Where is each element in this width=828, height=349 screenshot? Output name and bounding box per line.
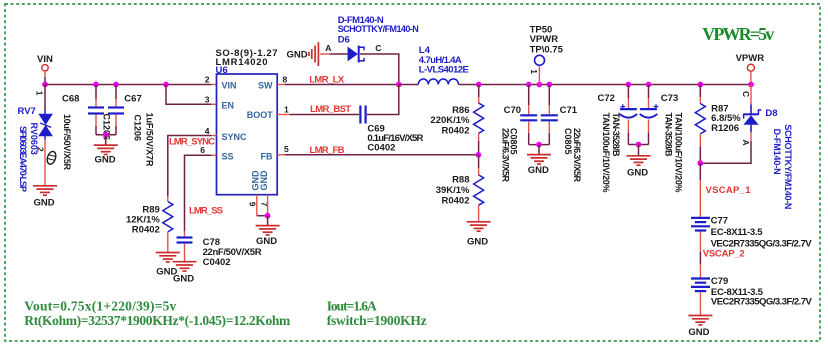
node EN tap bbox=[163, 82, 169, 88]
wire LMR_LX bbox=[285, 84, 399, 86]
wire C68/C67 ground join bbox=[96, 134, 116, 136]
svg-text:1uF/50V/X7R: 1uF/50V/X7R bbox=[145, 113, 155, 168]
test point TP50 bbox=[535, 55, 545, 84]
svg-text:VSCAP_1: VSCAP_1 bbox=[706, 185, 752, 196]
svg-text:220K/1%: 220K/1% bbox=[430, 115, 470, 126]
svg-text:C71: C71 bbox=[560, 105, 578, 116]
wire down to R87 bbox=[699, 85, 701, 98]
wire VPWR to D8 cathode bbox=[750, 85, 752, 105]
svg-text:VPWR: VPWR bbox=[736, 53, 765, 64]
wire D6 anode bbox=[320, 53, 348, 55]
wire down to R86 bbox=[478, 85, 480, 98]
svg-text:3: 3 bbox=[205, 94, 210, 104]
pin stub R86 top bbox=[478, 97, 480, 103]
pin stub U6 pin5 FB bbox=[277, 154, 285, 156]
capacitor C69 bbox=[277, 106, 365, 124]
svg-text:L-VLS4012E: L-VLS4012E bbox=[419, 65, 469, 76]
pin wire R89 bottom bbox=[167, 232, 169, 252]
ground (R89) bbox=[156, 253, 180, 262]
svg-text:R0402: R0402 bbox=[442, 195, 470, 206]
svg-text:9: 9 bbox=[247, 202, 257, 207]
diode D8 (schottky) bbox=[743, 105, 761, 133]
node C73 tap bbox=[646, 82, 652, 88]
svg-text:10uF/50V/X5R: 10uF/50V/X5R bbox=[62, 114, 72, 171]
svg-text:GND: GND bbox=[287, 49, 308, 60]
svg-text:2: 2 bbox=[205, 75, 210, 85]
capacitor C79 (supercap) bbox=[691, 279, 710, 292]
pin stub U6 pin7 bbox=[267, 195, 269, 216]
svg-text:C67: C67 bbox=[124, 94, 141, 105]
svg-text:GND: GND bbox=[256, 236, 277, 247]
wire VIN drop bbox=[44, 77, 46, 85]
svg-text:TP\0.75: TP\0.75 bbox=[530, 44, 564, 55]
wire stem to ground bbox=[105, 135, 107, 145]
svg-text:Iout=1.6A: Iout=1.6A bbox=[327, 299, 377, 314]
ground (D6 anode, sideways) bbox=[287, 42, 319, 66]
wire D8 anode to VSCAP node bbox=[700, 141, 751, 163]
pin stub U6 pin4 bbox=[211, 135, 216, 137]
svg-text:2: 2 bbox=[36, 147, 46, 152]
svg-text:EN: EN bbox=[222, 100, 235, 110]
resistor R88 bbox=[474, 175, 484, 205]
svg-text:Rt(Kohm)=32537*1900KHz*(-1.045: Rt(Kohm)=32537*1900KHz*(-1.045)=12.2Kohm bbox=[24, 313, 291, 328]
wire VPWR rail bbox=[459, 84, 752, 86]
svg-text:U6: U6 bbox=[216, 65, 228, 76]
wire RV7 branch bbox=[44, 85, 46, 111]
svg-text:fswitch=1900KHz: fswitch=1900KHz bbox=[327, 313, 427, 328]
pin stub R86 bottom bbox=[478, 133, 480, 141]
svg-text:LMR_SYNC: LMR_SYNC bbox=[169, 137, 215, 148]
op-amp U6 LMR14020 body bbox=[217, 74, 278, 195]
pin stub U6 pin3 bbox=[211, 103, 216, 105]
svg-text:TAN-3528/B: TAN-3528/B bbox=[611, 113, 621, 158]
wire pin9 to pin7 join bbox=[257, 215, 268, 217]
wire VIN main rail bbox=[45, 84, 211, 86]
svg-text:GND: GND bbox=[627, 168, 648, 179]
svg-text:SCHOTTKY/FM140-N: SCHOTTKY/FM140-N bbox=[783, 124, 793, 209]
wire LMR_SS bbox=[185, 155, 212, 231]
node R87 tap bbox=[697, 82, 703, 88]
pin wire RV7 to ground bbox=[44, 140, 46, 186]
port VPWR bbox=[736, 53, 765, 85]
svg-text:SW: SW bbox=[258, 80, 273, 90]
pin stub U6 pin9 bbox=[256, 195, 258, 216]
node C70 tap bbox=[526, 82, 532, 88]
resistor R87 bbox=[695, 104, 705, 134]
wire EN branch bbox=[166, 85, 211, 105]
pin stub U6 pin6 bbox=[211, 154, 216, 156]
wire R87 to VSCAP node bbox=[699, 147, 701, 163]
ground (R88) bbox=[467, 222, 491, 231]
svg-text:C0402: C0402 bbox=[367, 142, 395, 153]
ground (C79) bbox=[688, 316, 712, 325]
capacitor C70 bbox=[520, 85, 537, 145]
svg-text:RV7: RV7 bbox=[18, 106, 36, 117]
svg-text:EC-8X11-3.5: EC-8X11-3.5 bbox=[711, 227, 764, 238]
node VSCAP_1 bbox=[697, 160, 703, 166]
svg-text:R1206: R1206 bbox=[711, 123, 739, 134]
capacitor C78 bbox=[177, 231, 193, 261]
svg-text:C1206: C1206 bbox=[133, 115, 143, 142]
svg-text:LMR_LX: LMR_LX bbox=[309, 75, 345, 86]
node TP50 tap bbox=[537, 82, 543, 88]
svg-text:5: 5 bbox=[284, 144, 289, 154]
wire VSCAP_1 bbox=[699, 163, 701, 217]
node U6 ground bbox=[265, 213, 271, 219]
svg-text:TAN/100uF/10V/20%: TAN/100uF/10V/20% bbox=[674, 113, 684, 193]
svg-text:BOOT: BOOT bbox=[247, 110, 274, 120]
svg-text:22uF/6.3V/X5R: 22uF/6.3V/X5R bbox=[501, 128, 511, 183]
svg-text:1: 1 bbox=[529, 69, 539, 74]
wire stem C70/C71 ground bbox=[538, 145, 540, 154]
svg-text:C0805: C0805 bbox=[563, 128, 573, 155]
svg-text:LMR_BST: LMR_BST bbox=[310, 104, 351, 115]
node LX junction bbox=[396, 82, 402, 88]
wire LX to BOOT cap bbox=[367, 85, 399, 115]
svg-text:LMR_SS: LMR_SS bbox=[189, 205, 223, 216]
node C68/C67 ground bbox=[103, 132, 109, 138]
wire C70/C71 ground join bbox=[529, 144, 550, 146]
svg-text:1: 1 bbox=[284, 104, 289, 114]
svg-text:8: 8 bbox=[283, 75, 288, 85]
resistor R86 bbox=[474, 103, 484, 133]
wire LMR_SYNC bbox=[168, 136, 212, 197]
wire LMR_FB bbox=[285, 154, 478, 156]
capacitor C73 (tantalum) bbox=[640, 85, 659, 145]
svg-text:R0402: R0402 bbox=[442, 126, 470, 137]
svg-text:C77: C77 bbox=[711, 215, 728, 226]
svg-text:TAN/100uF/10V/20%: TAN/100uF/10V/20% bbox=[601, 113, 611, 193]
svg-text:GND: GND bbox=[688, 327, 709, 338]
svg-text:C72: C72 bbox=[598, 93, 615, 104]
svg-text:GND: GND bbox=[34, 198, 55, 209]
node C67 tap bbox=[113, 82, 119, 88]
pin stub U6 pin8 SW bbox=[277, 84, 285, 86]
node VIN rail junction bbox=[42, 82, 48, 88]
pin stub R87 top bbox=[699, 97, 701, 104]
capacitor C68 bbox=[88, 85, 104, 135]
wire VSCAP_2 bbox=[699, 232, 701, 278]
pin stub R87 bottom bbox=[699, 134, 701, 147]
svg-text:SYNC: SYNC bbox=[222, 132, 248, 142]
svg-text:GND: GND bbox=[95, 155, 116, 166]
svg-text:GND: GND bbox=[173, 273, 194, 284]
wire stem U6 ground bbox=[267, 216, 269, 225]
svg-text:C68: C68 bbox=[62, 94, 79, 105]
svg-text:VIN: VIN bbox=[222, 80, 237, 90]
svg-text:FB: FB bbox=[261, 151, 273, 161]
capacitor C71 bbox=[541, 85, 558, 145]
wire R86 to FB node bbox=[478, 141, 480, 155]
svg-text:SCHOTTKY/FM140-N: SCHOTTKY/FM140-N bbox=[338, 24, 419, 34]
ground (U6) bbox=[256, 226, 280, 235]
pin stub U6 pin2 bbox=[211, 84, 216, 86]
svg-text:D6: D6 bbox=[338, 34, 350, 45]
svg-text:C70: C70 bbox=[504, 105, 521, 116]
svg-text:VIN: VIN bbox=[37, 54, 53, 65]
svg-text:LMR_FB: LMR_FB bbox=[310, 145, 345, 156]
inductor L4 bbox=[418, 79, 458, 85]
svg-text:D8: D8 bbox=[765, 108, 777, 119]
port VIN bbox=[37, 54, 53, 77]
svg-text:4: 4 bbox=[205, 126, 210, 136]
svg-text:GND: GND bbox=[467, 237, 488, 248]
pin stub D8 anode bbox=[750, 132, 752, 141]
ground (C68/C67) bbox=[94, 145, 118, 154]
node FB divider bbox=[476, 152, 482, 158]
svg-text:A: A bbox=[741, 140, 751, 146]
capacitor C72 (tantalum) bbox=[620, 85, 638, 145]
svg-text:GND: GND bbox=[259, 170, 269, 191]
resistor R89 bbox=[163, 202, 173, 232]
node C68 tap bbox=[93, 82, 99, 88]
node R86 tap bbox=[476, 82, 482, 88]
diode D6 (schottky) bbox=[348, 46, 364, 63]
pin stub R88 top bbox=[478, 168, 480, 175]
svg-text:1: 1 bbox=[35, 91, 45, 96]
wire FB node to R88 bbox=[478, 155, 480, 168]
pin wire C79 to ground bbox=[699, 292, 701, 315]
svg-text:C0402: C0402 bbox=[203, 257, 231, 268]
svg-text:VSCAP_2: VSCAP_2 bbox=[703, 249, 745, 260]
svg-text:GND: GND bbox=[528, 165, 549, 176]
svg-text:C: C bbox=[741, 91, 751, 97]
svg-text:C73: C73 bbox=[661, 93, 678, 104]
wire D6 cathode to LX bbox=[360, 54, 399, 85]
ground (C72/C73) bbox=[627, 156, 651, 165]
pin stub R89 top bbox=[167, 196, 169, 202]
ground (C78) bbox=[173, 262, 197, 271]
capacitor C67 bbox=[108, 85, 124, 135]
svg-text:39K/1%: 39K/1% bbox=[436, 185, 470, 196]
varistor RV7 bbox=[38, 110, 53, 140]
svg-text:VEC2R7335QG/3.3F/2.7V: VEC2R7335QG/3.3F/2.7V bbox=[711, 297, 813, 308]
capacitor C77 (supercap) bbox=[691, 218, 710, 231]
wire stem C72/C73 ground bbox=[638, 145, 640, 156]
node C70/C71 ground bbox=[536, 142, 542, 148]
wire C72/C73 ground join bbox=[628, 144, 648, 146]
svg-text:SS: SS bbox=[222, 151, 234, 161]
svg-text:VPWR=5v: VPWR=5v bbox=[702, 24, 774, 44]
ground (C70/C71) bbox=[527, 155, 551, 164]
svg-text:TAN-3528/B: TAN-3528/B bbox=[663, 113, 673, 158]
svg-text:A: A bbox=[325, 43, 331, 53]
svg-text:C79: C79 bbox=[711, 276, 728, 287]
svg-text:Vout=0.75x(1+220/39)=5v: Vout=0.75x(1+220/39)=5v bbox=[24, 299, 176, 314]
wire LX to L4 bbox=[399, 84, 419, 86]
node VPWR junction bbox=[748, 82, 754, 88]
pin wire R88 bottom bbox=[478, 205, 480, 221]
svg-text:C: C bbox=[375, 43, 381, 53]
node C71 tap bbox=[546, 82, 552, 88]
svg-text:SFI0603EA470-LSP: SFI0603EA470-LSP bbox=[18, 126, 28, 192]
svg-text:R0402: R0402 bbox=[132, 224, 160, 235]
node C72/C73 ground bbox=[636, 142, 642, 148]
polarity mark ellipse (RV7) bbox=[46, 150, 58, 165]
svg-text:D-FM140-N: D-FM140-N bbox=[772, 129, 782, 175]
node C72 tap bbox=[626, 82, 632, 88]
ground (RV7) bbox=[33, 186, 57, 195]
